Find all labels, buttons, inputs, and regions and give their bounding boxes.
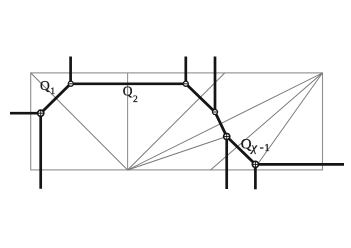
label Q chi-1 <box>241 136 270 154</box>
wire TR corner steep ray 2 <box>254 73 323 170</box>
node D circle <box>213 110 218 115</box>
svg-text:2: 2 <box>133 95 138 105</box>
wire thick diagonal C to D <box>186 84 215 112</box>
svg-text:Q: Q <box>241 136 252 152</box>
svg-text:-: - <box>260 140 264 154</box>
wire thick vertical above node B <box>69 57 72 84</box>
wire thick vertical below node A <box>39 113 42 189</box>
wire thick diagonal D to E <box>215 112 227 137</box>
wire thick diagonal E to G <box>227 137 256 165</box>
rectangle border <box>31 73 323 170</box>
wire fan ray to node E <box>128 137 227 171</box>
wire thick horizontal B to C <box>71 82 186 85</box>
node A crossed circle <box>38 110 44 116</box>
node E crossed circle <box>224 133 230 139</box>
node B circle <box>68 81 73 86</box>
svg-text:1: 1 <box>264 142 270 154</box>
svg-text:χ: χ <box>249 140 257 155</box>
wire thick diagonal A to B <box>41 84 71 113</box>
wire thick vertical above node D <box>214 57 217 113</box>
wire fan ray 45deg to top <box>128 73 225 170</box>
svg-text:1: 1 <box>50 87 55 97</box>
label Q2 <box>123 84 138 105</box>
wire thick horizontal into node A <box>10 112 41 115</box>
wire thick vertical below node E <box>225 137 228 190</box>
wire TR corner steep ray 1 <box>211 73 323 170</box>
svg-text:Q: Q <box>123 84 133 99</box>
wire thick vertical above node C <box>184 57 187 84</box>
wire vertical through fan point <box>127 73 129 170</box>
wire diagonal TL corner to fan point F <box>31 73 128 170</box>
node G crossed circle <box>252 161 258 167</box>
label Q1 <box>40 78 55 97</box>
node C circle <box>183 81 188 86</box>
wire thick vertical below node G <box>254 164 257 189</box>
wire thick horizontal right of node G <box>255 163 344 166</box>
wire fan ray to TR corner <box>128 73 323 170</box>
svg-text:Q: Q <box>40 78 50 93</box>
